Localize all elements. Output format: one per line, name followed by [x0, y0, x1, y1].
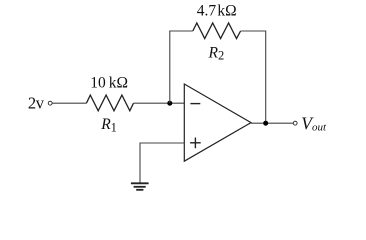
svg-text:4.7 kΩ: 4.7 kΩ: [197, 3, 237, 20]
svg-text:Vout: Vout: [301, 113, 327, 133]
wire down to ground: [139, 143, 141, 184]
wire input to R1: [52, 102, 86, 104]
wire node A up to feedback: [169, 31, 171, 103]
op-amp plus sign: [190, 142, 201, 144]
resistor R1: [86, 95, 133, 111]
ground: [131, 182, 149, 184]
node 2v input terminal: [48, 101, 52, 105]
op-amp minus sign: [190, 103, 200, 105]
svg-text:2v: 2v: [28, 93, 45, 112]
svg-text:R2: R2: [208, 44, 225, 62]
wire op-amp output: [251, 122, 293, 124]
op-amp U1 triangle: [184, 84, 251, 161]
wire feedback top right: [241, 30, 266, 32]
node A junction dot: [167, 101, 172, 106]
wire feedback top left: [169, 30, 193, 32]
wire R1 to op-amp inverting input: [134, 102, 185, 104]
resistor R2: [193, 23, 241, 39]
svg-text:10 kΩ: 10 kΩ: [90, 74, 128, 91]
wire op-amp noninverting input: [140, 142, 184, 144]
wire feedback down to output node: [265, 31, 267, 124]
svg-text:R1: R1: [100, 116, 117, 134]
node Vout terminal: [293, 121, 297, 125]
node B output junction dot: [263, 121, 268, 126]
